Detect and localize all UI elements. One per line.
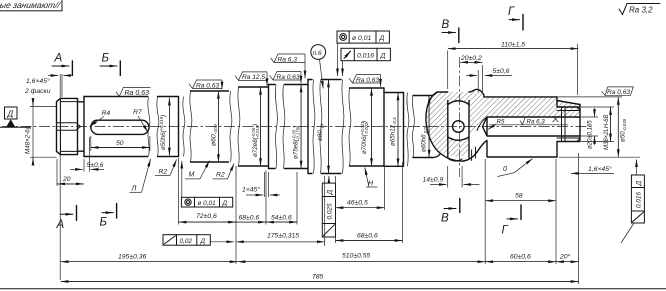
svg-text:46±0,5: 46±0,5 [347,200,368,207]
break wavy in o75 [275,85,284,169]
yoke hatch top band over ear slot [448,92,469,105]
section marker V top [442,19,459,43]
tolerance frame concentricity bottom [181,161,232,207]
dim o50 right tail [558,97,640,157]
dim M36 thread [581,107,614,150]
svg-text:54±0,6: 54±0,6 [271,215,292,222]
svg-text:0,025: 0,025 [327,203,334,219]
svg-text:5±0,6: 5±0,6 [493,68,510,75]
section marker B bottom [100,203,117,228]
shaft section o70 [350,88,385,166]
yoke top ledge profile [471,89,484,97]
shaft section o50 with keyway [84,97,179,157]
dim o72e8 [251,87,260,166]
section marker B top [100,53,120,76]
svg-text:Ra 12,5: Ra 12,5 [242,74,265,81]
tolerance frame 0,016 vertical right [621,160,644,244]
svg-text:М48×2-6g: М48×2-6g [25,125,32,154]
svg-text:Ra 0,63: Ra 0,63 [277,74,300,81]
svg-text:20*: 20* [559,254,571,261]
svg-text:Д: Д [222,200,228,207]
roughness Ra 0,63 on o75 [270,72,302,84]
dim 5+-0,6 yoke ledge [466,68,512,92]
svg-text:Ra 0,63: Ra 0,63 [125,90,150,97]
yoke hatch right wedge and tube wall section [469,89,557,137]
svg-text:0: 0 [503,166,507,173]
svg-text:Б: Б [100,217,108,229]
dim 20 thread length [57,159,84,186]
break transition o60-o72 [230,87,240,166]
yoke rear ear edges [472,147,476,161]
dim 58 [485,159,556,264]
svg-text:ые занимают//: ые занимают// [0,0,63,10]
svg-text:В: В [441,213,449,225]
dim 785 total [61,274,579,282]
svg-text:0,016: 0,016 [636,192,643,208]
dim o60 [211,91,220,162]
tail tube outline [477,97,557,157]
svg-text:R2: R2 [159,169,168,176]
svg-text:R4: R4 [102,110,111,117]
svg-text:Д: Д [7,110,14,119]
break transition o50-o60 [183,91,192,162]
svg-text:R7: R7 [133,109,142,116]
roughness Ra 0,63 right tail [602,87,634,96]
svg-text:Д: Д [380,52,386,59]
svg-text:510±0,55: 510±0,55 [342,253,371,260]
dim o50h6 [159,98,169,155]
dim o70h6 [360,88,371,166]
shaft section o80 [308,80,341,174]
surface label L [130,159,151,193]
svg-text:Д: Д [200,238,206,245]
svg-text:0,016: 0,016 [357,52,374,59]
svg-text:Г: Г [502,225,509,237]
svg-text:20±0,2: 20±0,2 [460,55,482,62]
section marker A bottom [56,206,77,232]
dim o80,19 [317,80,329,174]
thread section M48 left end [57,98,78,154]
note box top-left [0,0,63,11]
svg-text:68±0,6: 68±0,6 [239,215,260,222]
tolerance frame 0,025 vertical [322,176,335,237]
svg-text:Ra 0,63: Ra 0,63 [356,77,379,84]
svg-text:Ra 3,2: Ra 3,2 [629,6,653,15]
dim 68+-0,6 right [336,162,403,243]
svg-text:68±0,6: 68±0,6 [357,233,378,240]
svg-text:60±0,6: 60±0,6 [510,254,531,261]
svg-text:Ra 6,3: Ra 6,3 [278,56,298,63]
dim 5+-0,6 keyway [70,137,104,172]
svg-text:1,6×45°: 1,6×45° [26,77,50,85]
section marker V bottom [441,199,460,225]
roughness Ra 6,3 above o75 [271,54,306,78]
label shelf line R5 Ra [489,124,568,126]
dim M48x2-6g [25,99,57,165]
fillet label R5 [488,118,505,129]
sheet frame bottom border [0,288,666,290]
yoke vertical centerline [459,57,461,177]
dim 14+-0,9 [423,166,480,188]
svg-text:ø 0,01: ø 0,01 [352,35,371,42]
keyway length 50 [91,136,150,151]
keyway radius R4 label [90,110,111,127]
dim row 72 68 54 [179,158,298,264]
general roughness Ra 3,2 top right [619,4,660,15]
fillet label R2 first [155,160,177,176]
svg-text:1×45°: 1×45° [242,186,260,194]
svg-text:R5: R5 [497,118,505,125]
dim 110+-1,5 [448,41,579,95]
svg-text:5±0,6: 5±0,6 [87,162,104,169]
roughness Ra 0,63 on o50 [116,87,151,97]
section marker G bottom [502,205,522,237]
break transition o65-o60R [407,93,414,167]
roughness Ra 0,63 on o60 [189,80,222,89]
tolerance frame concentricity top [337,31,389,76]
roughness Ra 6,3 on bore [520,117,545,126]
svg-text:ø70h6(+0,0210,002): ø70h6(+0,0210,002) [360,121,369,154]
svg-text:Ra 0,63: Ra 0,63 [607,89,630,96]
svg-text:Д: Д [636,181,643,187]
shaft section o60 [191,91,229,162]
dim 20+-0,2 yoke [460,55,483,92]
keyway radius R7 label [133,109,148,132]
break wavy in o80 [313,80,322,174]
svg-text:Б: Б [102,53,110,65]
svg-text:20: 20 [62,176,71,183]
dim 46+-0,5 [336,167,385,243]
dim o60h6 right [421,96,430,158]
chamfer note 1,6x45 2 faski left [24,74,73,280]
shaft section o65 [384,93,404,167]
svg-text:ø 0,01: ø 0,01 [198,200,217,207]
note circle p.6 [311,45,326,89]
yoke hatch below ear slot [448,137,469,157]
roughness Ra 12,5 on o72 [235,72,267,86]
break wavy in o50 [148,97,159,157]
shaft section o60 right before yoke [413,96,432,158]
fillet label R2 second [213,164,235,179]
svg-text:М36×2LH-6В: М36×2LH-6В [604,114,610,150]
dim o65h12 [390,93,399,166]
svg-text:М: М [189,172,195,179]
thread relief groove [78,97,85,157]
datum D left [0,107,30,127]
svg-text:14±0,9: 14±0,9 [423,177,444,184]
datum label O [498,159,533,177]
svg-text:195±0,36: 195±0,36 [118,254,147,261]
svg-text:ø20±0,165: ø20±0,165 [588,120,594,149]
tolerance frame runout top [341,48,390,76]
svg-text:В: В [442,19,450,31]
svg-text:0,02: 0,02 [180,238,193,245]
keyway slot [91,120,149,134]
dim o20 bore [581,108,598,149]
dim o75e8 [292,85,301,169]
yoke lobe outline [426,92,477,161]
tolerance frame 0,02 bottom [163,235,234,246]
svg-text:Л: Л [131,186,137,193]
tail neck fillet R5 inner [477,117,487,131]
yoke front ear bottom [448,158,462,161]
section marker G top [508,6,523,30]
dim 175+-0,315 [236,176,325,246]
svg-text:Г: Г [508,6,515,18]
svg-text:R2: R2 [216,172,225,179]
svg-text:58: 58 [515,193,523,200]
shaft section o72 [239,85,269,169]
yoke ear slot [448,101,469,159]
svg-text:ø75е8(-0,05-0,170): ø75е8(-0,05-0,170) [292,126,301,159]
surface label N [365,168,378,188]
chamfer 1,6x45 right [571,165,614,174]
flat-face cross mark [553,116,559,122]
svg-text:Ra 0,63: Ra 0,63 [196,82,219,89]
center hole left end [57,123,81,130]
section marker A top [52,53,72,76]
svg-text:2 фаски: 2 фаски [24,88,51,95]
svg-text:А: А [54,53,63,65]
shaft section o75 [269,80,309,174]
svg-text:Ra 6,3: Ra 6,3 [527,118,546,125]
svg-text:72±0,6: 72±0,6 [196,213,217,220]
surface label M [185,161,210,179]
yoke hatch left crescent [426,92,448,154]
tail end collar M36 thread [557,97,580,157]
roughness Ra 0,63 on o70 [349,75,381,87]
svg-text:Д: Д [379,35,385,42]
break transition o80-o70 [342,80,351,174]
svg-text:1,6×45°: 1,6×45° [588,165,612,173]
main axis centerline [2,126,592,128]
svg-text:п.6: п.6 [313,50,322,57]
yoke bearing hole [453,121,465,133]
svg-text:ø72е8(-0,06-0,010): ø72е8(-0,06-0,010) [251,124,260,157]
svg-text:Д: Д [327,190,334,196]
dim row 195 510 60 20 [61,153,579,284]
svg-text:50: 50 [116,140,124,147]
svg-text:785: 785 [312,274,324,281]
tail bore o20 [483,117,581,136]
chamfer 1x45 mid [242,172,280,197]
svg-text:175±0,315: 175±0,315 [267,233,299,240]
svg-text:110±1,5: 110±1,5 [501,41,525,48]
